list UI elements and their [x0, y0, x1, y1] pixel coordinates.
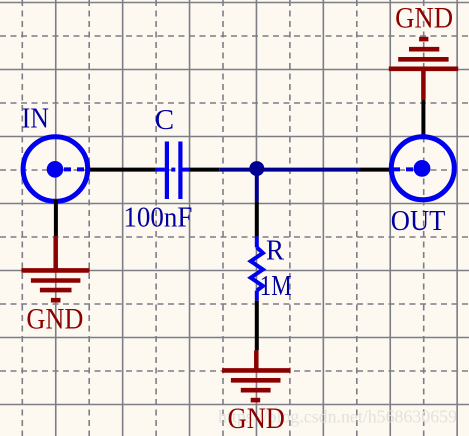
- ground GND stem (bottom): [254, 350, 259, 370]
- wire IN bottom: [54, 200, 58, 236]
- wire resistor to ground: [255, 301, 259, 351]
- svg-text:GND: GND: [395, 2, 453, 35]
- svg-text:C: C: [155, 104, 175, 136]
- capacitor C middle dash: [171, 168, 175, 172]
- connector OUT circle: [391, 137, 454, 200]
- resistor R top pin stub: [255, 236, 259, 247]
- ground bars (bottom): [222, 370, 290, 400]
- svg-text:1M: 1M: [260, 270, 292, 302]
- svg-text:GND: GND: [26, 303, 83, 336]
- svg-text:100nF: 100nF: [123, 202, 192, 234]
- resistor R zigzag: [251, 247, 263, 290]
- wire capacitor to node (black part): [190, 168, 219, 172]
- ground bars (top right, inverted): [389, 39, 458, 69]
- svg-text:R: R: [266, 234, 285, 266]
- wire GND to OUT: [421, 100, 425, 138]
- junction node: [249, 161, 264, 176]
- wire node down (blue): [255, 168, 259, 201]
- ground GND stem (IN): [53, 236, 58, 270]
- svg-text:GND: GND: [228, 402, 285, 435]
- resistor R bottom pin stub: [255, 291, 259, 301]
- capacitor C right pin stub: [182, 168, 190, 172]
- capacitor C left plate: [165, 142, 169, 200]
- connector OUT center dot: [414, 160, 431, 177]
- ground GND stem (top right): [421, 69, 426, 100]
- connector IN dashed pin: [64, 167, 86, 171]
- wire IN to capacitor: [87, 168, 155, 172]
- svg-text:IN: IN: [22, 103, 49, 135]
- wire node down (black part): [255, 201, 259, 236]
- capacitor C1 left pin stub: [155, 168, 165, 172]
- connector IN center dot: [47, 161, 64, 178]
- connector IN circle: [23, 137, 88, 202]
- capacitor C right plate: [178, 142, 182, 200]
- connector OUT dashed pin: [393, 167, 413, 171]
- ground bars (IN): [21, 270, 89, 300]
- wire to OUT (black part): [359, 168, 390, 172]
- wire node segment (blue): [219, 168, 359, 172]
- svg-text:OUT: OUT: [391, 205, 446, 237]
